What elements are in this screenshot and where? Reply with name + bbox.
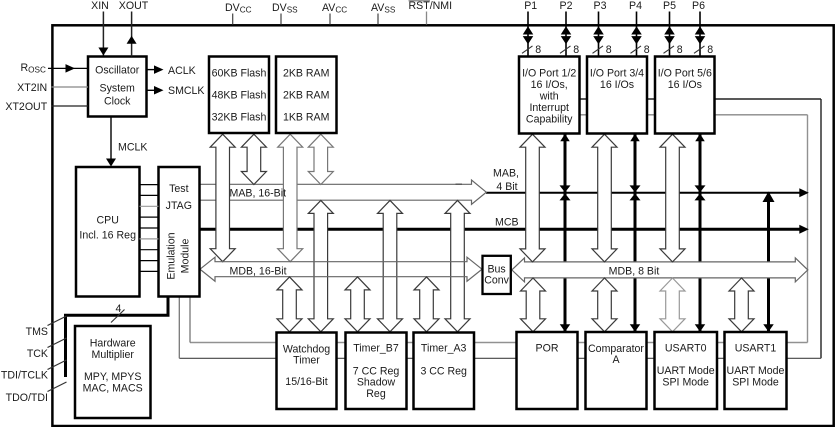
svg-text:Incl. 16 Reg: Incl. 16 Reg xyxy=(79,230,136,242)
svg-text:UART Mode: UART Mode xyxy=(657,365,715,377)
svg-text:MAB, 16-Bit: MAB, 16-Bit xyxy=(230,188,287,200)
signal ACLK xyxy=(147,69,157,71)
wire: right rail grey vertical x=807.5 xyxy=(807,115,809,343)
svg-text:8: 8 xyxy=(535,44,541,56)
bus width slash 8 for P4 xyxy=(631,46,642,53)
svg-text:8: 8 xyxy=(707,44,713,56)
svg-text:Timer_B7: Timer_B7 xyxy=(353,343,399,355)
arrow: MDB to Timer_A3 (hollow) xyxy=(414,277,439,332)
svg-text:1KB RAM: 1KB RAM xyxy=(283,112,330,124)
arrow: MDB 8-bit to USART0 (hollow grey) xyxy=(660,278,685,332)
arrow: MAB to Watchdog Timer (tall hollow) xyxy=(308,200,333,331)
svg-text:TCK: TCK xyxy=(27,348,48,360)
wire P4 column: I/O Port 3/4 to Comparator A xyxy=(634,134,637,332)
svg-text:8: 8 xyxy=(677,44,683,56)
svg-text:8: 8 xyxy=(573,44,579,56)
bus width slash 4 xyxy=(111,310,125,323)
bus width slash 8 for P5 xyxy=(664,46,675,53)
svg-text:TMS: TMS xyxy=(26,326,48,338)
svg-text:P5: P5 xyxy=(663,0,676,12)
wire P2 column: I/O Port 1/2 to POR xyxy=(564,134,567,332)
wire: port feedback rail upper (black) y=99 xyxy=(580,98,822,100)
svg-text:4: 4 xyxy=(116,303,122,315)
block: Test JTAG / Emulation Module xyxy=(159,167,200,297)
wire: port feedback rail lower (grey) y=115 xyxy=(580,114,808,116)
bus width slash 8 for P3 xyxy=(593,46,604,53)
block: Bus Conv xyxy=(483,256,511,294)
svg-text:MDB, 8 Bit: MDB, 8 Bit xyxy=(609,265,660,277)
svg-text:2KB RAM: 2KB RAM xyxy=(283,68,330,80)
svg-text:SPI Mode: SPI Mode xyxy=(662,377,709,389)
wire: right rail black vertical x=821 xyxy=(820,99,822,358)
signal MCLK xyxy=(110,117,112,166)
arrow: RAM to MAB (vertical hollow) xyxy=(308,134,333,184)
svg-text:P1: P1 xyxy=(524,0,537,12)
svg-text:SPI Mode: SPI Mode xyxy=(732,377,779,389)
svg-text:XT2IN: XT2IN xyxy=(17,82,47,94)
bus width slash 8 for P1 xyxy=(522,46,533,53)
bus MAB 16-bit (hollow arrow right) xyxy=(200,180,487,204)
svg-text:4 Bit: 4 Bit xyxy=(496,181,517,193)
wire: emulation module bottom vertical grey 2 xyxy=(189,297,191,343)
bus MAB 4-bit right arrowhead xyxy=(799,188,809,197)
svg-text:USART0: USART0 xyxy=(665,342,707,354)
block: Timer_B7 xyxy=(346,333,407,410)
block: RAM xyxy=(276,57,337,134)
svg-text:P6: P6 xyxy=(692,0,705,12)
svg-text:P2: P2 xyxy=(560,0,573,12)
svg-text:XIN: XIN xyxy=(91,0,109,12)
svg-text:I/O Port 5/6: I/O Port 5/6 xyxy=(658,68,712,80)
svg-text:MPY, MPYS: MPY, MPYS xyxy=(84,371,142,383)
svg-text:TDO/TDI: TDO/TDI xyxy=(6,392,48,404)
svg-text:P3: P3 xyxy=(594,0,607,12)
svg-text:MDB, 16-Bit: MDB, 16-Bit xyxy=(230,265,287,277)
svg-text:XT2OUT: XT2OUT xyxy=(5,101,47,113)
svg-text:8: 8 xyxy=(606,44,612,56)
arrow: Flash to MAB (vertical hollow) xyxy=(241,134,266,184)
bus width slash 8 for P6 xyxy=(694,46,705,53)
wires: CPU to Test/JTAG connections xyxy=(140,184,159,186)
block: I/O Port 3/4 xyxy=(587,57,647,134)
arrow: I/O Port 3/4 to MDB 8-bit (hollow) xyxy=(592,134,617,262)
svg-text:3 CC Reg: 3 CC Reg xyxy=(420,365,467,377)
block: Hardware Multiplier xyxy=(75,326,151,418)
svg-text:POR: POR xyxy=(536,343,559,355)
svg-text:Oscillator: Oscillator xyxy=(95,65,140,77)
arrow: Flash to MDB (vertical hollow) xyxy=(210,134,235,262)
arrow: MDB 8-bit to POR (hollow) xyxy=(521,278,546,332)
wire: emulation to peripherals rail (dark) y=358.3 xyxy=(179,357,821,359)
svg-text:Hardware: Hardware xyxy=(90,338,136,350)
svg-text:Timer_A3: Timer_A3 xyxy=(421,343,467,355)
bus width slash 8 for P2 xyxy=(560,46,571,53)
bus MCB line xyxy=(200,228,802,231)
svg-text:I/O Port 3/4: I/O Port 3/4 xyxy=(590,68,644,80)
arrow: MDB 8-bit to USART1 (hollow) xyxy=(729,278,754,332)
svg-text:16 I/Os: 16 I/Os xyxy=(668,79,702,91)
svg-text:Module: Module xyxy=(180,239,192,274)
svg-text:60KB Flash: 60KB Flash xyxy=(212,68,267,80)
arrow: MDB 8-bit to Comparator A (hollow) xyxy=(592,278,617,332)
svg-text:SMCLK: SMCLK xyxy=(168,85,205,97)
svg-text:Capability: Capability xyxy=(526,113,573,125)
arrow: MAB to Timer_B7 (tall hollow) xyxy=(378,200,403,331)
block: POR xyxy=(517,332,578,409)
svg-text:Conv: Conv xyxy=(484,275,509,287)
wire: emulation to peripherals rail (grey) y=342.5 xyxy=(190,342,808,344)
block: I/O Port 5/6 xyxy=(655,57,715,134)
arrow: MDB to Timer_B7 (hollow) xyxy=(345,277,370,332)
svg-text:Test: Test xyxy=(169,183,188,195)
svg-text:Emulation: Emulation xyxy=(166,232,178,279)
svg-text:Clock: Clock xyxy=(104,96,131,108)
svg-text:P4: P4 xyxy=(629,0,642,12)
svg-text:ACLK: ACLK xyxy=(168,65,196,77)
svg-text:16 I/Os: 16 I/Os xyxy=(600,79,634,91)
wire: emulation module bottom vertical grey 1 xyxy=(178,297,180,359)
wire: JTAG bus from Emulation Module (thick) xyxy=(66,297,169,378)
svg-text:Multiplier: Multiplier xyxy=(92,349,135,361)
svg-text:MAC, MACS: MAC, MACS xyxy=(83,382,143,394)
block: I/O Port 1/2 xyxy=(519,57,580,134)
tick on MAB bus xyxy=(456,183,463,185)
signal SMCLK xyxy=(147,89,157,91)
svg-text:48KB Flash: 48KB Flash xyxy=(212,90,267,102)
svg-text:Interrupt: Interrupt xyxy=(529,102,569,114)
svg-text:2KB RAM: 2KB RAM xyxy=(283,90,330,102)
bus MCB right arrowhead xyxy=(799,225,809,234)
arrow: I/O Port 1/2 to MDB 8-bit (hollow) xyxy=(520,134,545,262)
block: USART1 xyxy=(725,332,787,409)
svg-text:JTAG: JTAG xyxy=(166,200,192,212)
bus MDB 16-bit (hollow double arrow) xyxy=(200,257,482,281)
svg-text:16 I/Os,: 16 I/Os, xyxy=(531,79,568,91)
svg-text:System: System xyxy=(100,83,135,95)
svg-text:TDI/TCLK: TDI/TCLK xyxy=(1,369,48,381)
svg-text:Comparator: Comparator xyxy=(588,343,644,355)
svg-text:USART1: USART1 xyxy=(735,342,777,354)
svg-text:15/16-Bit: 15/16-Bit xyxy=(285,376,327,388)
bus MDB 8-bit (hollow double arrow) xyxy=(512,258,808,282)
block: CPU Incl. 16 Reg xyxy=(76,167,140,297)
arrow: RAM to MDB (vertical hollow) xyxy=(278,134,303,262)
svg-text:RST/NMI: RST/NMI xyxy=(409,0,453,12)
svg-text:A: A xyxy=(612,354,620,366)
svg-text:XOUT: XOUT xyxy=(119,0,149,12)
block: Comparator A xyxy=(586,332,647,409)
wire P6 column: I/O Port 5/6 to USART0 xyxy=(699,134,702,332)
arrow: MDB to Watchdog Timer (hollow) xyxy=(277,277,302,332)
svg-text:Reg: Reg xyxy=(366,388,386,400)
svg-text:32KB Flash: 32KB Flash xyxy=(212,112,267,124)
arrow: MAB to Timer_A3 (tall hollow) xyxy=(445,200,470,331)
svg-text:I/O Port 1/2: I/O Port 1/2 xyxy=(522,68,576,80)
block: Oscillator / System Clock U1 xyxy=(88,57,147,117)
block: Watchdog Timer xyxy=(277,333,337,410)
svg-text:8: 8 xyxy=(644,44,650,56)
svg-text:MCLK: MCLK xyxy=(118,141,147,153)
svg-text:MCB: MCB xyxy=(495,217,519,229)
block: Flash memory xyxy=(209,57,269,134)
svg-text:with: with xyxy=(539,90,559,102)
svg-text:Timer: Timer xyxy=(293,355,320,367)
svg-text:UART Mode: UART Mode xyxy=(727,365,785,377)
block: USART0 xyxy=(655,332,718,409)
svg-text:MAB,: MAB, xyxy=(493,168,519,180)
svg-text:Shadow: Shadow xyxy=(357,376,396,388)
block: Timer_A3 xyxy=(414,333,475,410)
bus MAB 4-bit line xyxy=(486,192,801,194)
wire: MAB 4-bit to USART1 column xyxy=(767,193,770,332)
arrow: I/O Port 5/6 to MDB 8-bit (hollow) xyxy=(660,134,685,262)
svg-text:CPU: CPU xyxy=(97,215,119,227)
